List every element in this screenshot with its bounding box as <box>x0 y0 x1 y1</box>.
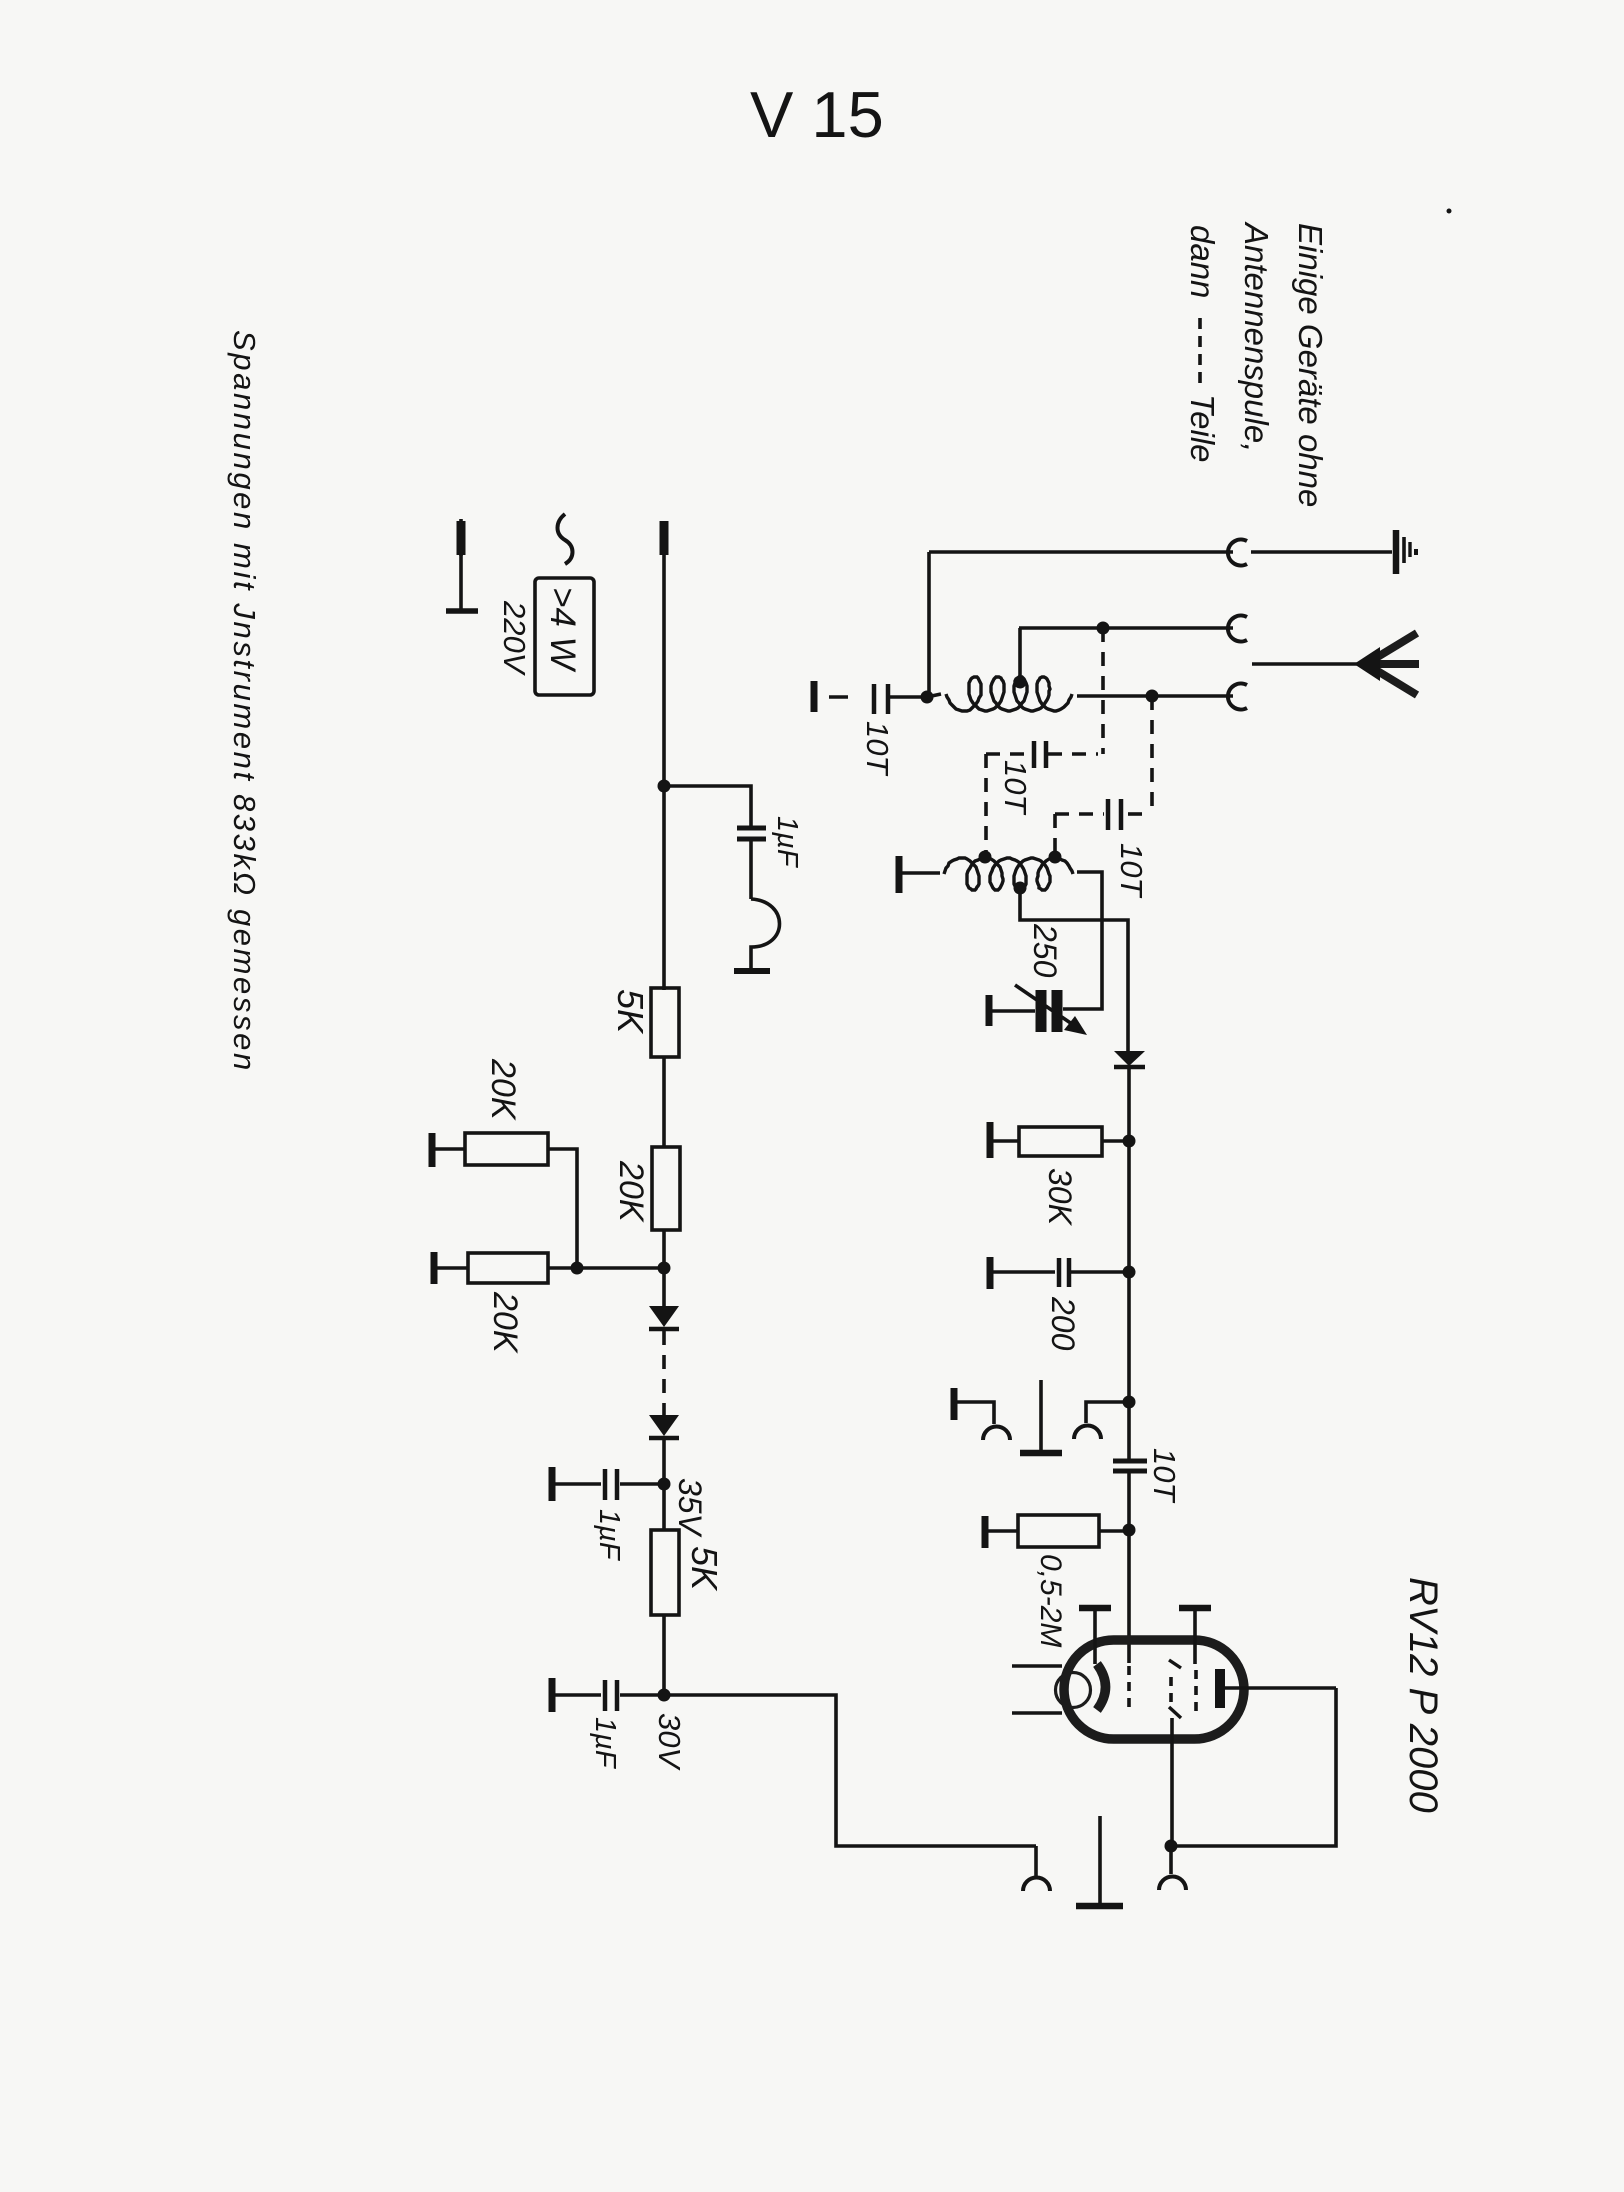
wire <box>1127 1068 1131 1141</box>
wire earth line <box>929 550 1233 554</box>
node coil2 tap bottom <box>1014 882 1027 895</box>
svg-text:Teile: Teile <box>1184 394 1221 463</box>
tube anode <box>1215 1669 1225 1708</box>
svg-text:10T: 10T <box>1147 1448 1182 1503</box>
connector socket antenna upper <box>1228 616 1247 642</box>
svg-text:>4 W: >4 W <box>543 587 582 673</box>
resistor 0.5-2M <box>982 1516 989 1548</box>
capacitor 1uF top branch <box>664 786 751 826</box>
wire rail top <box>662 553 666 786</box>
node 35V <box>658 1478 671 1491</box>
svg-text:Antennenspule,: Antennenspule, <box>1238 221 1275 452</box>
capacitor 1uF at 35V node <box>620 1482 664 1486</box>
tube screen grid g2 (dotted) <box>1194 1670 1198 1714</box>
wire <box>662 1057 666 1147</box>
wire rail <box>662 786 666 990</box>
capacitor 10T coupling B (dashed part) <box>1128 812 1152 816</box>
wire middle socket <box>1019 626 1233 630</box>
wire stub to connector <box>1034 1846 1038 1876</box>
wire divider to rail <box>577 1266 664 1270</box>
node 30V <box>658 1689 671 1702</box>
capacitor 10T coupling A (dashed part) <box>1048 752 1098 756</box>
box >4W <box>535 578 594 695</box>
wire <box>662 1615 666 1695</box>
node left divider <box>571 1262 584 1275</box>
node dashed tap right <box>1146 690 1159 703</box>
capacitor 1uF at 30V node <box>620 1693 664 1697</box>
tube heater leads <box>1012 1664 1062 1668</box>
tube cathode <box>1097 1664 1106 1710</box>
inductor antenna coil L1 <box>927 694 941 697</box>
AC tilde symbol <box>558 514 573 564</box>
svg-text:1µF: 1µF <box>593 1509 625 1562</box>
svg-text:220V: 220V <box>497 600 532 677</box>
svg-text:200: 200 <box>1045 1296 1081 1351</box>
antenna symbol <box>1252 662 1368 666</box>
node junction 20K tap <box>658 1262 671 1275</box>
svg-text:10T: 10T <box>1114 843 1149 898</box>
svg-text:dann: dann <box>1184 225 1221 298</box>
svg-text:30K: 30K <box>1042 1168 1078 1227</box>
svg-text:20K: 20K <box>486 1291 524 1354</box>
svg-text:10T: 10T <box>860 721 895 776</box>
svg-text:Spannungen mit Jnstrument 8: Spannungen mit Jnstrument 833kΩ gemessen <box>227 330 262 1073</box>
inductor tuning coil L2 <box>944 858 1073 890</box>
resistor 20K upper-left <box>429 1133 436 1167</box>
connector socket bottom left <box>1023 1878 1050 1891</box>
svg-text:10T: 10T <box>998 760 1033 815</box>
resistor 5K lower <box>651 1530 679 1615</box>
phones jack right <box>1086 1402 1129 1423</box>
wire <box>662 1268 666 1308</box>
dashed wire from middle node <box>1101 628 1105 754</box>
tube RV12 P 2000 envelope <box>1064 1640 1244 1739</box>
terminal bar below 1uF <box>734 968 770 974</box>
node coil1 loop top <box>1014 676 1027 689</box>
resistor 5K upper <box>651 988 679 1057</box>
svg-text:Einige Geräte ohne: Einige Geräte ohne <box>1292 223 1329 507</box>
terminal mains L (stub with bar) <box>459 519 463 556</box>
svg-text:V 15: V 15 <box>750 78 884 151</box>
diode D1 <box>649 1306 679 1327</box>
node coil2 hump right <box>1049 851 1062 864</box>
wire to earth symbol <box>1251 550 1392 554</box>
wire <box>1127 1141 1131 1272</box>
tube control grid g1 (dashed) <box>1127 1666 1131 1712</box>
tube screen grid g2 terminal <box>1179 1605 1211 1612</box>
terminal mains N (thick stub) <box>660 521 669 555</box>
wire down to coil1 <box>927 552 931 697</box>
wire 30V to bottom run <box>664 1695 1036 1846</box>
wire <box>1127 1272 1131 1402</box>
wire coil2 left lead <box>902 871 940 875</box>
node cathode return <box>1165 1840 1178 1853</box>
wire grid lead <box>1127 1530 1131 1663</box>
paper speck <box>1447 209 1452 214</box>
wire stub to connector2 <box>1169 1846 1173 1874</box>
wire coil1 to socket <box>1077 694 1233 698</box>
node middle wire <box>1097 622 1110 635</box>
dashed wire from right tap <box>1150 696 1154 814</box>
svg-text:0,5-2M: 0,5-2M <box>1034 1554 1067 1647</box>
capacitor 10T series <box>1113 1459 1147 1464</box>
wire down to coil1 top <box>1018 628 1022 680</box>
diode D2 <box>649 1415 679 1436</box>
resistor 20K lower-left <box>431 1252 438 1284</box>
node 200 <box>1123 1266 1136 1279</box>
tube cathode terminal <box>1079 1605 1111 1612</box>
svg-text:RV12 P 2000: RV12 P 2000 <box>1401 1577 1445 1813</box>
node grid leak <box>1123 1524 1136 1537</box>
tube heater circle <box>1056 1673 1091 1708</box>
svg-text:5K: 5K <box>684 1546 725 1592</box>
diode D3 <box>1114 1051 1145 1066</box>
wire cathode return <box>1170 1744 1174 1846</box>
wire <box>662 1484 666 1530</box>
resistor 30K <box>987 1122 994 1158</box>
node coil2 hump left <box>979 851 992 864</box>
connector socket antenna lower <box>1228 684 1247 710</box>
wire anode return loop <box>1171 1688 1336 1846</box>
phones chassis terminal <box>1039 1380 1043 1451</box>
connector socket earth <box>1228 540 1247 566</box>
terminal coil2 left <box>896 856 903 893</box>
wire <box>1127 1473 1131 1530</box>
wire anode out <box>1225 1686 1336 1690</box>
capacitor 200 <box>987 1257 994 1289</box>
connector socket cathode <box>1159 1877 1186 1891</box>
phones jack left <box>951 1388 958 1420</box>
wire <box>662 1438 666 1484</box>
svg-text:20K: 20K <box>612 1160 650 1223</box>
node junction to 1uF branch <box>658 780 671 793</box>
wire tap to detector rail <box>1020 888 1128 1051</box>
capacitor 10T antenna <box>811 681 818 712</box>
ground symbol (rotated) <box>1393 530 1400 574</box>
wire coil2 right to tuning cap <box>1063 872 1102 1009</box>
tube grid g3 (dashed, to cathode line) <box>1169 1660 1181 1668</box>
svg-text:250: 250 <box>1027 923 1063 978</box>
svg-text:1µF: 1µF <box>589 1717 621 1770</box>
chassis terminal bottom <box>1098 1816 1102 1904</box>
wire <box>1127 1402 1131 1459</box>
wire dashed between diodes <box>662 1331 666 1415</box>
svg-text:5K: 5K <box>610 989 651 1035</box>
node 30K <box>1123 1135 1136 1148</box>
svg-text:30V: 30V <box>652 1713 687 1771</box>
node phones <box>1123 1396 1136 1409</box>
resistor 20K on rail <box>652 1147 680 1230</box>
variable capacitor 250 <box>986 995 993 1026</box>
wire hook below 1uF <box>751 899 780 969</box>
wire <box>662 1230 666 1268</box>
svg-text:20K: 20K <box>484 1058 522 1121</box>
node coil1 left <box>921 691 934 704</box>
svg-text:1µF: 1µF <box>771 816 803 869</box>
